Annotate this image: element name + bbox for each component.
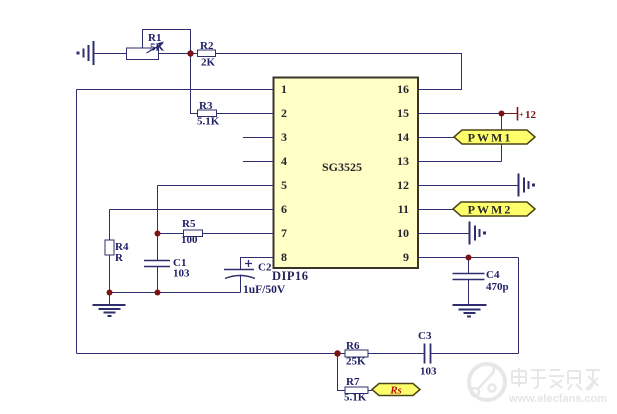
ground GND3 (sideways, pin 12) (519, 174, 536, 197)
port Rs (372, 384, 420, 397)
svg-text:R7: R7 (346, 376, 360, 388)
wire C2 bottom stem (240, 275, 242, 293)
resistor R1 5K potentiometer (127, 42, 165, 60)
wire R1 wiper loop (143, 30, 191, 54)
svg-text:PWM2: PWM2 (468, 203, 513, 217)
wire pin9 row (418, 257, 519, 259)
power +12 (502, 107, 537, 121)
svg-text:6: 6 (281, 202, 287, 216)
svg-text:10: 10 (397, 226, 409, 240)
svg-text:C2: C2 (258, 262, 272, 274)
ground GND5 (earth, under C4) (453, 305, 487, 317)
svg-text:11: 11 (398, 202, 409, 216)
capacitor C4 (453, 274, 485, 280)
wire pin1 to left rail (77, 89, 274, 91)
wire pin14 to PWM1 (418, 137, 454, 139)
capacitor C1 (144, 261, 170, 267)
ground GND2 (earth, under R4) (93, 305, 126, 316)
junction pin9/C4 node (466, 255, 472, 261)
wire node A to R2 (191, 53, 198, 55)
junction +12 node (pin15/pin13) (499, 111, 505, 117)
junction node C (R6/R7) (334, 350, 340, 356)
junction node A (R1/R2/R3) (187, 50, 193, 56)
svg-text:470p: 470p (486, 281, 509, 293)
svg-text:5: 5 (281, 178, 287, 192)
capacitor C3 (425, 344, 431, 364)
junction node B (pin5/R5/C1) (155, 231, 161, 237)
svg-text:100: 100 (181, 234, 198, 246)
wire ground to R1 (94, 53, 127, 55)
svg-text:R2: R2 (200, 40, 214, 52)
wire C1 top stem (157, 234, 159, 261)
wire R4 bottom to ground stem (109, 255, 111, 305)
svg-text:5K: 5K (150, 42, 165, 54)
svg-text:R6: R6 (346, 340, 360, 352)
resistor R7 (345, 387, 368, 394)
svg-text:C3: C3 (418, 330, 432, 342)
wire pin13 row (418, 161, 502, 163)
svg-text:7: 7 (281, 226, 287, 240)
ground GND4 (sideways, pin 10) (470, 222, 487, 245)
svg-text:14: 14 (397, 130, 409, 144)
wire pin7 to R5 (203, 233, 274, 235)
op-amp U1 SG3525 IC body (274, 78, 419, 269)
svg-text:13: 13 (397, 154, 409, 168)
svg-text:12: 12 (397, 178, 409, 192)
wire R3 to node A vertical (191, 54, 198, 114)
svg-text:15: 15 (397, 106, 409, 120)
wire pin15 to +12 node (418, 113, 502, 115)
svg-text:4: 4 (281, 154, 287, 168)
port PWM1 (454, 130, 535, 145)
svg-text:R: R (115, 252, 124, 264)
resistor R6 (345, 350, 368, 357)
svg-text:25K: 25K (346, 356, 366, 368)
wire pin3 stub (243, 137, 273, 139)
svg-text:5.1K: 5.1K (197, 116, 220, 128)
resistor R2 (198, 50, 216, 57)
wire C4 bottom stem (468, 280, 470, 305)
svg-text:3: 3 (281, 130, 287, 144)
svg-text:16: 16 (397, 82, 409, 96)
svg-text:+: + (519, 111, 524, 120)
svg-text:2: 2 (281, 106, 287, 120)
svg-text:Rs: Rs (389, 385, 402, 397)
wire C3 to right corner (431, 353, 519, 355)
svg-text:2K: 2K (201, 57, 216, 69)
svg-text:1uF/50V: 1uF/50V (243, 284, 286, 296)
wire R7 to Rs port (368, 390, 372, 392)
svg-text:12: 12 (525, 109, 537, 121)
wire pin4 stub (243, 161, 273, 163)
resistor R5 (184, 230, 203, 237)
wire R5 to node B (158, 233, 184, 235)
wire pin16 loop to R2 (216, 54, 462, 90)
svg-text:DIP16: DIP16 (272, 269, 309, 283)
wire R1 to node A (158, 53, 191, 55)
wire pin5 row (158, 185, 274, 187)
wire C4 top stem (468, 258, 470, 274)
svg-text:C4: C4 (486, 269, 500, 281)
svg-text:5.1K: 5.1K (344, 392, 367, 404)
wire left vertical rail (76, 90, 78, 354)
wire R6 to C3 (368, 353, 424, 355)
resistor R3 (198, 110, 217, 117)
junction C1 bottom/common (155, 290, 161, 296)
svg-text:103: 103 (420, 366, 437, 378)
svg-text:PWM1: PWM1 (468, 131, 513, 145)
svg-text:SG3525: SG3525 (322, 160, 362, 174)
wire pin5 vertical to node B (157, 186, 159, 234)
wire pin10 to ground (418, 233, 469, 235)
port PWM2 (453, 202, 535, 217)
svg-text:9: 9 (403, 250, 409, 264)
wire pin6 down to R4 (109, 210, 111, 241)
wire pin6 row (110, 209, 274, 211)
wire pin8 to C2 (241, 258, 274, 270)
wire pin12 to ground (418, 185, 518, 187)
ground GND1 (sideways, left of R1) (77, 41, 94, 65)
watermark text 电子发烧友 (approximated strokes) (512, 368, 600, 390)
svg-text:R3: R3 (199, 100, 213, 112)
wire bottom common (R4-C1-C2) (110, 292, 241, 294)
svg-text:103: 103 (173, 268, 190, 280)
svg-text:1: 1 (281, 82, 287, 96)
wire bottom rail to R6 (77, 353, 346, 355)
svg-text:R5: R5 (182, 218, 196, 230)
wire C1 bottom stem (157, 267, 159, 293)
junction R4/ground/common (107, 290, 113, 296)
wire +12 node down to pin13 row (501, 114, 503, 162)
svg-text:8: 8 (281, 250, 287, 264)
watermark logo circle (469, 364, 505, 400)
capacitor C2 electrolytic (224, 260, 255, 279)
wire node C down to R7 (338, 354, 346, 391)
svg-text:www.elecfans.com: www.elecfans.com (508, 393, 607, 405)
wire pin2 to R3 (217, 113, 274, 115)
wire right vertical rail (518, 258, 520, 354)
wire pin11 to PWM2 (418, 209, 453, 211)
resistor R4 (105, 240, 114, 255)
